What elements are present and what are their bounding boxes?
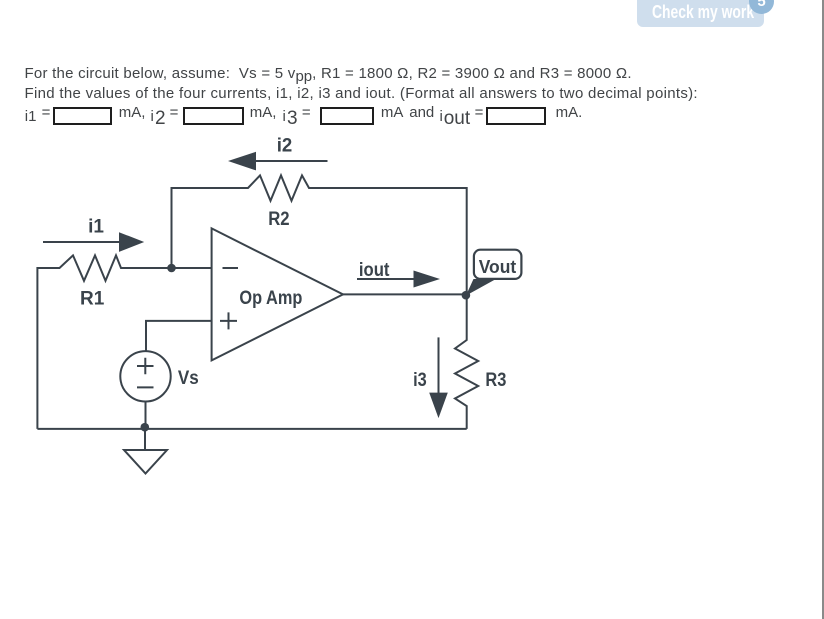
svg-text:i3: i3 — [413, 369, 427, 390]
svg-text:iout: iout — [359, 259, 390, 280]
svg-text:i2: i2 — [277, 134, 293, 155]
svg-text:Vout: Vout — [479, 257, 516, 278]
svg-text:R2: R2 — [268, 208, 289, 229]
svg-text:Vs: Vs — [178, 367, 199, 388]
svg-text:i1: i1 — [88, 217, 104, 238]
svg-text:R1: R1 — [80, 288, 105, 309]
svg-text:R3: R3 — [485, 369, 506, 390]
svg-text:Op Amp: Op Amp — [239, 287, 302, 308]
